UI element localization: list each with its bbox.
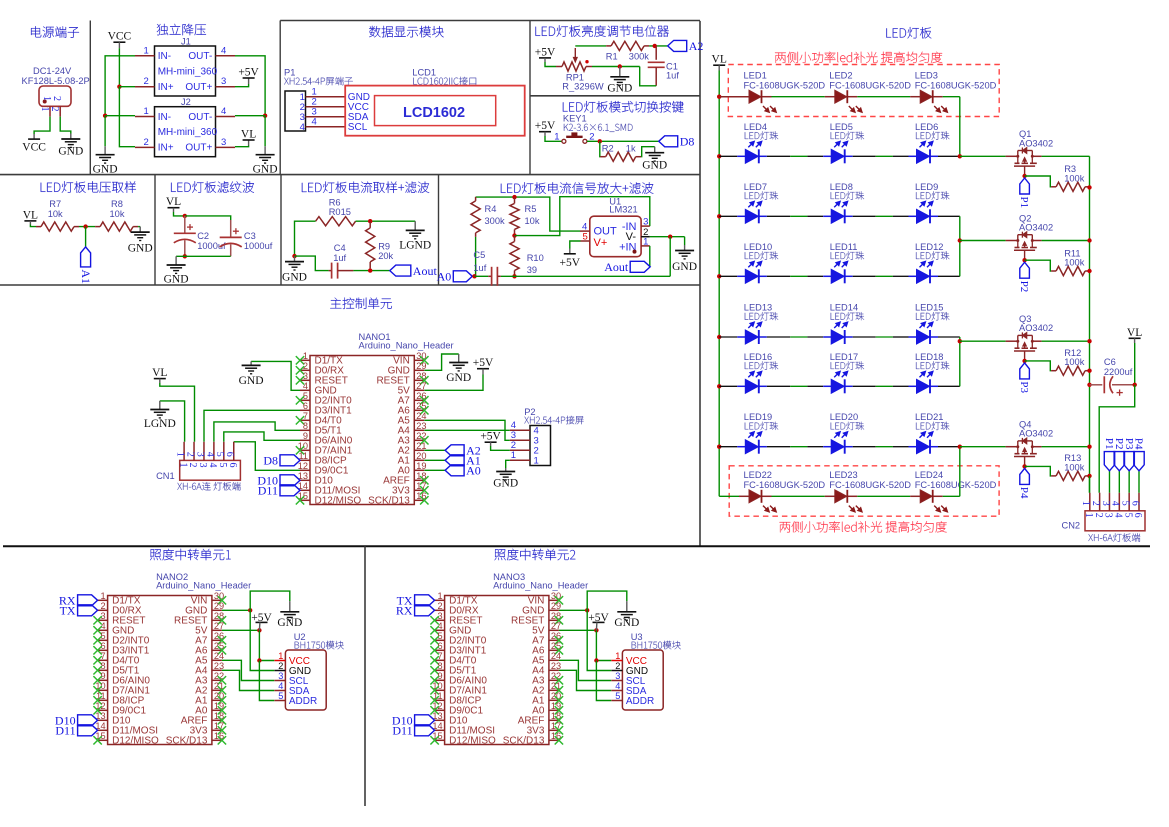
dashed highlight box bottom	[729, 466, 999, 516]
power flag +5V in key section	[535, 120, 562, 141]
svg-text:1: 1	[554, 132, 559, 143]
svg-text:10k: 10k	[48, 209, 63, 219]
wire NANO2 pin27 +5V net	[222, 628, 274, 700]
wire R6 left to bottom junction	[292, 221, 315, 258]
wire ripple top rail	[183, 214, 231, 220]
svg-text:LED24: LED24	[915, 470, 943, 480]
wire NANO2 A4 to SDA	[222, 670, 274, 690]
svg-text:4: 4	[1113, 513, 1124, 518]
IC NANO2 Arduino_Nano_Header	[93, 572, 251, 747]
LED LED21 LED灯珠	[915, 412, 949, 454]
wire link row1-row2 right	[958, 97, 962, 159]
svg-text:AO3402: AO3402	[1019, 429, 1053, 439]
wire VCC to J1 IN+ / J2 IN+	[117, 48, 135, 147]
LED LED4 LED灯珠	[744, 122, 778, 164]
svg-text:300k: 300k	[485, 216, 506, 226]
svg-text:CN1: CN1	[156, 471, 175, 481]
svg-text:R7: R7	[49, 199, 61, 209]
svg-text:D11: D11	[258, 484, 278, 498]
svg-text:LED14: LED14	[830, 303, 858, 313]
connector P2 XH2.54-4P	[510, 407, 584, 466]
svg-text:R_3296W: R_3296W	[562, 81, 604, 91]
capacitor C5 1uf	[473, 250, 500, 286]
svg-text:J2: J2	[181, 97, 191, 107]
ground GND amp section	[672, 237, 697, 273]
svg-text:GND: GND	[93, 164, 118, 176]
svg-text:3: 3	[1103, 513, 1114, 518]
svg-text:3: 3	[221, 137, 226, 148]
svg-text:TX: TX	[60, 604, 76, 618]
svg-text:+5V: +5V	[473, 357, 494, 369]
LED LED17 LED灯珠	[830, 352, 864, 394]
wire gate Q4 node	[1022, 464, 1051, 476]
svg-text:+5V: +5V	[535, 46, 556, 58]
ground GND in voltage sampling	[128, 227, 153, 255]
svg-text:LED2: LED2	[829, 71, 852, 81]
svg-text:D11: D11	[55, 724, 75, 738]
svg-text:GND: GND	[58, 146, 83, 158]
wire gate Q1 node	[1022, 174, 1051, 187]
wire right rail to CN2 pin1	[1087, 156, 1091, 492]
resistor R3 100k	[1051, 164, 1090, 191]
svg-text:LED22: LED22	[744, 470, 772, 480]
net label A0 at NANO1 pin19	[424, 464, 480, 478]
wire NANO1 pin6 to CN1 pin3	[204, 410, 300, 442]
svg-text:LED3: LED3	[915, 71, 938, 81]
svg-text:4: 4	[300, 122, 305, 133]
svg-text:ADDR: ADDR	[289, 696, 317, 707]
svg-text:R1: R1	[606, 51, 618, 61]
svg-text:D12/MISO: D12/MISO	[112, 736, 159, 747]
LED LED14 LED灯珠	[830, 303, 864, 345]
LED LED22 FC-1608UGK-520D	[744, 470, 826, 512]
net label D10 at NANO3 pin13	[392, 714, 435, 728]
svg-text:1: 1	[437, 591, 442, 601]
svg-text:1: 1	[100, 591, 105, 601]
wire R5 bottom to -IN rail	[512, 197, 650, 238]
svg-text:LED10: LED10	[744, 242, 772, 252]
svg-text:D8: D8	[263, 454, 278, 468]
svg-text:100k: 100k	[1064, 462, 1085, 472]
wire NANO3 A4 to SDA	[559, 670, 611, 690]
svg-text:R9: R9	[378, 242, 390, 252]
svg-text:R8: R8	[111, 199, 123, 209]
svg-text:RX: RX	[396, 604, 413, 618]
svg-text:C2: C2	[197, 231, 209, 241]
potentiometer RP1 R_3296W	[556, 48, 604, 91]
resistor R8 10k	[95, 199, 138, 231]
svg-text:R4: R4	[485, 204, 497, 214]
section title 照度中转单元2	[495, 549, 576, 560]
net label D11 at NANO1 pin14	[258, 484, 300, 498]
IC U2 BH1750 module	[274, 632, 343, 710]
svg-text:R015: R015	[329, 207, 351, 217]
LED LED9 LED灯珠	[915, 182, 949, 224]
LED LED11 LED灯珠	[830, 242, 864, 283]
svg-text:10k: 10k	[525, 216, 540, 226]
svg-text:5: 5	[615, 691, 620, 701]
svg-text:P2: P2	[524, 407, 535, 417]
power flag +5V at U1 V+	[560, 241, 581, 269]
svg-text:LED16: LED16	[744, 352, 772, 362]
svg-text:GND: GND	[253, 164, 278, 176]
svg-text:2: 2	[184, 452, 195, 457]
svg-text:GND: GND	[446, 372, 471, 384]
svg-text:SCK/D13: SCK/D13	[503, 736, 545, 747]
svg-text:10k: 10k	[110, 209, 125, 219]
wire DC pin2 to GND	[60, 117, 71, 134]
ground LGND at CN1	[144, 401, 185, 442]
svg-text:LED18: LED18	[915, 352, 943, 362]
svg-text:VL: VL	[166, 196, 181, 208]
svg-text:20: 20	[416, 451, 426, 461]
net label TX at NANO3 pin1	[397, 594, 435, 608]
LED LED12 LED灯珠	[915, 242, 949, 283]
svg-text:A1: A1	[79, 269, 93, 284]
svg-text:2: 2	[49, 107, 60, 112]
section title 独立降压	[157, 24, 206, 35]
svg-text:4: 4	[1110, 501, 1121, 506]
connector CN1 XH-6A	[156, 442, 240, 491]
svg-text:LED1: LED1	[744, 71, 767, 81]
svg-text:29: 29	[214, 601, 224, 611]
capacitor C4 1uf	[329, 243, 354, 279]
LED LED15 LED灯珠	[915, 303, 949, 345]
svg-text:3: 3	[643, 216, 648, 227]
wire ripple bottom rail	[176, 254, 231, 258]
svg-text:+5V: +5V	[560, 257, 581, 269]
net label A2	[668, 39, 704, 53]
svg-text:OUT-: OUT-	[188, 112, 212, 123]
capacitor C2 1000uf	[174, 216, 226, 256]
ground GND in key section	[642, 147, 667, 172]
wire RP1 wiper rail to GND and C1	[592, 64, 656, 86]
svg-text:5: 5	[278, 691, 283, 701]
svg-text:1uf: 1uf	[473, 263, 486, 273]
svg-text:6: 6	[224, 452, 235, 457]
wire CN2 pin1 stub	[1089, 476, 1091, 493]
svg-text:Arduino_Nano_Header: Arduino_Nano_Header	[359, 341, 454, 351]
ground GND right of buck modules	[253, 146, 278, 176]
IC NANO3 Arduino_Nano_Header	[430, 572, 588, 747]
svg-text:1: 1	[278, 651, 283, 661]
wire blue LED row y=386.3	[719, 385, 960, 387]
wire NANO2 A5 to SCL	[222, 660, 274, 680]
svg-text:2: 2	[187, 463, 198, 468]
svg-text:1: 1	[643, 237, 648, 248]
LED LED13 LED灯珠	[744, 303, 778, 345]
net label TX at NANO2 pin2	[60, 604, 98, 618]
svg-text:P3: P3	[1018, 381, 1030, 393]
net label P3 flag above CN2	[1123, 438, 1135, 493]
svg-text:LM321: LM321	[609, 204, 637, 214]
svg-text:6: 6	[1129, 501, 1140, 506]
wire R8 to GND	[138, 226, 140, 228]
svg-text:AO3402: AO3402	[1019, 323, 1053, 333]
svg-text:1: 1	[175, 452, 186, 457]
ground GND at P2	[493, 468, 518, 490]
wire source Q3 to right rail	[1042, 340, 1090, 342]
power flag +5V at J1 OUT+	[235, 67, 260, 87]
svg-text:D8: D8	[680, 135, 695, 149]
svg-text:5: 5	[217, 463, 228, 468]
power flag VL at J2 OUT+	[235, 129, 256, 147]
svg-text:1: 1	[144, 45, 149, 56]
dashed highlight box top	[728, 65, 999, 117]
svg-text:LED5: LED5	[830, 122, 853, 132]
wire R1 to A2 and C1	[649, 44, 668, 48]
svg-text:6: 6	[303, 401, 308, 411]
svg-text:Arduino_Nano_Header: Arduino_Nano_Header	[493, 581, 588, 591]
resistor R10 39	[510, 236, 544, 277]
LED LED2 FC-1608UGK-520D	[829, 71, 911, 113]
connector DC1-24V KF128L-5.08-2P	[22, 66, 90, 117]
resistor R7 10k	[36, 199, 79, 231]
resistor R1 300k	[606, 41, 650, 61]
svg-text:29: 29	[551, 601, 561, 611]
svg-text:SCL: SCL	[348, 122, 368, 133]
net label RX at NANO2 pin1	[59, 594, 98, 608]
net label D8 in key section	[659, 135, 695, 149]
svg-text:GND: GND	[282, 272, 307, 284]
LED LED5 LED灯珠	[830, 122, 864, 164]
power flag VL top of LED panel	[712, 54, 727, 71]
svg-text:A2: A2	[689, 39, 704, 53]
svg-text:C4: C4	[334, 243, 346, 253]
power flag VL in sampling section	[23, 209, 38, 226]
wire R4 bottom to A0 node	[475, 237, 477, 276]
svg-text:1uf: 1uf	[666, 70, 679, 80]
LED LED16 LED灯珠	[744, 352, 778, 394]
svg-text:GND: GND	[128, 243, 153, 255]
section title 照度中转单元1	[150, 549, 231, 560]
svg-text:1000uf: 1000uf	[244, 241, 273, 251]
LED LED18 LED灯珠	[915, 352, 949, 394]
wire red LED row y=496.3	[719, 495, 960, 497]
LED LED20 LED灯珠	[830, 412, 864, 454]
IC LCD1 LCD1602IIC module	[345, 68, 525, 136]
svg-text:24: 24	[416, 411, 426, 421]
svg-text:ADDR: ADDR	[626, 696, 654, 707]
capacitor C3 1000uf	[220, 220, 273, 256]
svg-text:2200uf: 2200uf	[1104, 367, 1133, 377]
svg-text:FC-1608UGK-520D: FC-1608UGK-520D	[915, 480, 997, 490]
wire drain Q4	[960, 446, 1006, 448]
svg-text:2: 2	[144, 76, 149, 87]
wire blue LED row y=337	[719, 336, 960, 338]
section title LED灯板电流取样+滤波	[302, 182, 429, 193]
ground GND at NANO1 pin29	[446, 354, 471, 384]
wire VL to CN2 pin2	[1099, 385, 1135, 493]
svg-text:R5: R5	[525, 204, 537, 214]
wire link row5-row6 right	[958, 337, 962, 386]
svg-text:AO3402: AO3402	[1019, 223, 1053, 233]
svg-text:4: 4	[221, 106, 226, 117]
svg-text:VL: VL	[712, 54, 727, 66]
svg-text:4: 4	[207, 463, 218, 468]
svg-text:IN-: IN-	[158, 112, 171, 123]
svg-text:LED21: LED21	[915, 412, 943, 422]
ground GND in brightness section	[607, 67, 632, 95]
svg-text:VL: VL	[1127, 327, 1142, 339]
wire P2 pin1 to GND	[506, 460, 510, 468]
svg-text:LCD1: LCD1	[412, 68, 436, 78]
svg-text:FC-1608UGK-520D: FC-1608UGK-520D	[744, 480, 826, 490]
svg-text:3: 3	[1100, 501, 1111, 506]
svg-text:LED11: LED11	[830, 242, 858, 252]
svg-text:1: 1	[534, 456, 539, 467]
net label A1	[79, 247, 93, 284]
svg-text:LED19: LED19	[744, 412, 772, 422]
wire blue LED row y=156.3	[719, 155, 960, 157]
svg-text:DC1-24V: DC1-24V	[33, 66, 72, 76]
svg-text:1k: 1k	[626, 144, 636, 154]
svg-text:Arduino_Nano_Header: Arduino_Nano_Header	[156, 581, 251, 591]
svg-text:P4: P4	[1018, 487, 1030, 499]
wire link row7-row8 right	[958, 445, 962, 497]
net label D10 at NANO1 pin13	[257, 474, 300, 488]
buck module J1 MH-mini_360	[135, 37, 235, 97]
wire blue LED row y=446.7	[719, 446, 960, 448]
svg-text:21: 21	[416, 441, 426, 451]
power flag VCC below DC connector	[22, 134, 46, 154]
power flag +5V at NANO3	[588, 612, 609, 630]
wire U1 V- to GND and bottom rail	[650, 235, 685, 277]
net label P4 flag above CN2	[1133, 438, 1145, 493]
svg-text:1uf: 1uf	[333, 253, 346, 263]
net label P4 gate flag	[1018, 468, 1030, 499]
svg-text:GND: GND	[164, 274, 189, 286]
ground GND at NANO3	[614, 601, 639, 629]
svg-text:SCK/D13: SCK/D13	[166, 736, 208, 747]
IC NANO1 Arduino_Nano_Header	[296, 332, 454, 507]
svg-text:1: 1	[511, 450, 516, 461]
svg-text:LGND: LGND	[399, 239, 431, 251]
LED LED1 FC-1608UGK-520D	[744, 71, 826, 113]
svg-text:9: 9	[303, 431, 308, 441]
wire NANO1 pin29 to ground	[424, 354, 458, 370]
net label D11 at NANO2 pin14	[55, 724, 97, 738]
svg-text:27: 27	[214, 621, 224, 631]
net label A0	[437, 270, 473, 284]
LED LED6 LED灯珠	[915, 122, 949, 164]
net label A2 at NANO1 pin21	[424, 444, 480, 458]
svg-text:OUT+: OUT+	[185, 82, 212, 93]
svg-text:D12/MISO: D12/MISO	[315, 496, 362, 507]
section title LED灯板	[886, 27, 931, 38]
svg-text:GND: GND	[614, 617, 639, 629]
svg-text:GND: GND	[239, 375, 264, 387]
section title LED灯板电压取样	[41, 181, 136, 192]
svg-text:29: 29	[416, 361, 426, 371]
wire link row3-row4 right	[958, 216, 962, 276]
wire drain Q1	[960, 155, 1006, 157]
svg-text:4: 4	[303, 381, 308, 391]
svg-text:1: 1	[177, 463, 188, 468]
ground GND at NANO2	[277, 601, 302, 629]
svg-text:+5V: +5V	[238, 67, 259, 79]
net label D8 at NANO1 pin11	[263, 454, 300, 468]
svg-text:5: 5	[214, 452, 225, 457]
svg-text:P1: P1	[1018, 197, 1030, 209]
svg-text:6: 6	[1132, 513, 1143, 518]
svg-text:OUT+: OUT+	[185, 143, 212, 154]
svg-text:4: 4	[615, 681, 620, 691]
net label P3 gate flag	[1018, 363, 1030, 394]
net label P2 flag above CN2	[1113, 438, 1125, 493]
buck module J2 MH-mini_360	[135, 97, 235, 157]
svg-text:OUT-: OUT-	[188, 51, 212, 62]
svg-text:P2: P2	[1018, 281, 1030, 293]
power flag VL in ripple filter	[166, 196, 185, 216]
svg-text:U2: U2	[294, 632, 306, 642]
wire R2 to GND	[641, 147, 655, 157]
svg-text:2: 2	[1090, 501, 1101, 506]
wire J1 IN- / J2 IN- to GND rail	[103, 56, 135, 146]
svg-text:LED9: LED9	[915, 182, 938, 192]
power flag +5V in brightness section	[535, 46, 556, 66]
wire blue LED row y=276.3	[719, 275, 960, 277]
wire NANO1 pin9 to CN1 pin5	[224, 432, 300, 442]
wire NANO1 pin12 to CN1 pin6	[234, 442, 300, 471]
svg-text:LGND: LGND	[144, 418, 176, 430]
wire amp bottom rail	[472, 274, 670, 278]
svg-text:GND: GND	[493, 478, 518, 490]
svg-text:SCK/D13: SCK/D13	[368, 496, 410, 507]
wire NANO3 pin27 +5V net	[559, 628, 611, 700]
note text top 两侧小功率led补光 提高均匀度	[775, 52, 942, 63]
svg-text:KEY1: KEY1	[563, 114, 587, 124]
svg-text:D12/MISO: D12/MISO	[449, 736, 496, 747]
net label P1 flag above CN2	[1103, 438, 1115, 493]
power flag +5V at P2 pin2	[480, 431, 509, 451]
LED LED24 FC-1608UGK-520D	[915, 470, 997, 512]
wire NANO1 GND pin4 to ground	[251, 361, 300, 390]
resistor R11 100k	[1051, 248, 1090, 275]
LED LED19 LED灯珠	[744, 412, 778, 454]
power flag +5V at NANO1 pin27	[424, 357, 494, 390]
svg-text:A0: A0	[437, 270, 452, 284]
wire DC pin1 to VCC	[34, 117, 50, 134]
IC U3 BH1750 module	[611, 632, 680, 710]
svg-text:D11: D11	[392, 724, 412, 738]
wire gate Q3 node	[1022, 359, 1051, 371]
svg-text:3: 3	[194, 452, 205, 457]
svg-text:3: 3	[615, 671, 620, 681]
svg-text:1: 1	[144, 106, 149, 117]
svg-text:VCC: VCC	[22, 142, 46, 154]
wire NANO3 A5 to SCL	[559, 660, 611, 680]
svg-text:GND: GND	[642, 160, 667, 172]
wire NANO3 pin29 ground net	[559, 591, 627, 670]
svg-text:LED13: LED13	[744, 303, 772, 313]
svg-text:5: 5	[583, 232, 588, 243]
svg-text:1: 1	[1080, 501, 1091, 506]
svg-text:1: 1	[41, 96, 52, 101]
svg-text:CN2: CN2	[1062, 521, 1081, 531]
resistor R2 1k	[600, 144, 641, 162]
wire amp top rail left	[476, 195, 580, 231]
svg-text:Aout: Aout	[604, 260, 629, 274]
wire source Q1 to right rail	[1042, 155, 1090, 157]
svg-text:AO3402: AO3402	[1019, 138, 1053, 148]
svg-text:27: 27	[551, 621, 561, 631]
ground LGND current sampling	[399, 221, 431, 251]
svg-text:4: 4	[221, 45, 226, 56]
transistor Q1 AO3402	[1006, 129, 1054, 176]
svg-text:FC-1608UGK-520D: FC-1608UGK-520D	[829, 480, 911, 490]
svg-text:3: 3	[278, 671, 283, 681]
